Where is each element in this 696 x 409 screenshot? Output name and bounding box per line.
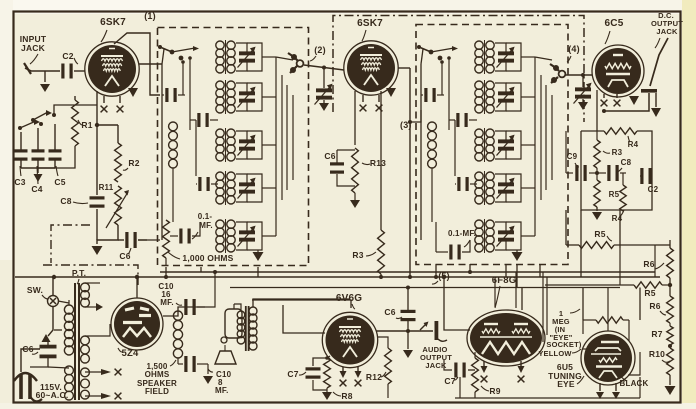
resistor R1: [72, 96, 93, 146]
tube V2 6SK7: [344, 41, 398, 95]
tube V7 6U5 tuning eye: [581, 331, 635, 385]
wire row 4 to right rail (box 1): [247, 174, 276, 202]
label D.C. OUTPUT JACK: [651, 11, 683, 48]
ground arrow left column: [92, 246, 103, 255]
wire box right bundle (box 2): [535, 57, 552, 236]
wire V1 plate to IF box: [139, 63, 162, 65]
wire row 2 to right rail (box 2): [506, 83, 535, 111]
band switch node (4): [550, 64, 565, 83]
trimmer capacitor row 2 (box 2): [495, 83, 515, 111]
resistor R3 right: [594, 131, 600, 168]
speaker field housing: [221, 304, 242, 343]
trimmer capacitor row 3 (box 2): [495, 131, 515, 159]
svg-text:C8: C8: [60, 196, 71, 206]
svg-text:C6: C6: [324, 151, 335, 161]
IF coil row 2 (box 2): [475, 80, 494, 114]
PT primary winding: [54, 300, 74, 355]
svg-text:(2): (2): [314, 45, 326, 55]
ground arrow at V1: [128, 88, 138, 97]
resistor R5 lower horizontal: [545, 282, 670, 288]
pins 6F8G with X marks: [481, 361, 525, 382]
label (2): [310, 45, 326, 61]
shield dash-dot around power section: [43, 225, 138, 285]
svg-text:C7: C7: [444, 376, 455, 386]
svg-text:C3: C3: [14, 177, 25, 187]
switch rotor in box (box 2): [417, 45, 458, 60]
IF coil row 2 (box 1): [216, 80, 235, 114]
svg-text:6V6G: 6V6G: [336, 293, 362, 304]
wire row 3 to right rail (box 2): [506, 131, 535, 159]
svg-text:FIELD: FIELD: [145, 387, 169, 396]
wire V3 cathode down: [596, 90, 598, 131]
resistor R6 lower: [667, 296, 674, 323]
svg-text:(1): (1): [144, 11, 156, 21]
shield box around V2 and IF box 2: [333, 16, 584, 123]
svg-text:C5: C5: [54, 177, 65, 187]
svg-text:C2: C2: [648, 185, 659, 194]
svg-text:60~A.C.: 60~A.C.: [36, 390, 69, 400]
svg-text:R3: R3: [612, 148, 623, 157]
wire detector network frame: [581, 131, 652, 210]
svg-text:R10: R10: [649, 349, 665, 359]
resistor R13: [350, 148, 360, 208]
speaker cone: [215, 345, 236, 364]
svg-text:JACK: JACK: [21, 43, 46, 53]
label 0.1-MF box1: [192, 212, 213, 239]
capacitor C7 at 6F8G: [444, 360, 475, 378]
wire output transformer top: [234, 299, 350, 311]
label (4): [567, 44, 580, 62]
wire node (3) vertical: [408, 68, 412, 277]
label 1 MEG eye socket: [546, 309, 581, 349]
capacitor in box mid (box 2): [449, 113, 477, 127]
svg-text:C9: C9: [567, 152, 578, 161]
svg-text:C6: C6: [384, 307, 395, 317]
resistor R4 top: [604, 128, 637, 134]
tube V5 6V6G: [322, 312, 377, 367]
resistor R5 right: [594, 168, 600, 210]
resistor R10: [667, 344, 674, 375]
svg-text:MF.: MF.: [199, 221, 213, 230]
a.c. plug: [14, 349, 42, 401]
wire V2 cathode down: [354, 91, 356, 145]
wire R1 bottom: [38, 146, 75, 168]
IF coil row 5 (box 1): [216, 219, 235, 253]
resistor R8: [322, 358, 332, 400]
svg-text:R11: R11: [99, 183, 114, 192]
label R13: [362, 158, 386, 168]
svg-text:0.1-MF.: 0.1-MF.: [448, 229, 476, 238]
resistor R5 horizontal: [566, 210, 656, 248]
wire (4) to V3: [565, 73, 592, 77]
pins V1 with X marks: [101, 96, 124, 112]
label 0.1-MF box2: [448, 229, 476, 247]
wire row 4 to right rail (box 2): [506, 174, 535, 202]
capacitor in box mid2 (box 1): [196, 177, 218, 191]
svg-text:R5: R5: [609, 190, 620, 199]
wire row 1 to right rail (box 1): [247, 43, 276, 71]
svg-text:EYE: EYE: [557, 379, 575, 389]
ground arrow in box (box 1): [253, 250, 264, 261]
wire eye leads: [583, 349, 640, 375]
label 6F8G: [492, 275, 517, 308]
wire 5Z4 output: [163, 307, 205, 316]
label C2 right: [648, 185, 659, 194]
coil in box left (box 2): [428, 122, 437, 222]
label C3: [14, 166, 25, 187]
label C7 at 6V6G: [287, 369, 306, 379]
IF coil row 1 (box 2): [475, 40, 494, 74]
pins 6V6G with X marks: [340, 367, 362, 386]
capacitor C6 audio: [401, 288, 416, 332]
wire wavetrap common: [21, 168, 55, 173]
label 6C5: [605, 18, 624, 44]
wire 6V6G grid: [283, 305, 325, 333]
wire chain junction: [668, 278, 672, 296]
capacitor C6 at V2: [330, 150, 355, 186]
capacitor in box left (box 2): [421, 88, 444, 102]
label C6 audio: [384, 307, 402, 319]
wire box inner verticals (box 2): [440, 56, 455, 176]
IF coil row 3 (box 1): [216, 128, 235, 162]
wire (3) into box 2: [410, 110, 421, 122]
svg-text:R7: R7: [651, 329, 662, 339]
tube V1 6SK7: [85, 42, 139, 96]
svg-text:(3): (3): [400, 120, 412, 130]
label 115V 60-A.C.: [36, 382, 69, 400]
label R5 lower: [644, 288, 655, 298]
capacitor C6 lower-left: [118, 232, 147, 261]
svg-text:R3: R3: [352, 250, 363, 260]
label C5: [54, 166, 65, 187]
IF coil row 4 (box 1): [216, 171, 235, 205]
capacitor in box mid2 (box 2): [455, 177, 477, 191]
wire V2 plate to (3): [398, 67, 410, 69]
input jack J1: [24, 63, 60, 74]
ground arrow in box (box 2): [512, 250, 523, 261]
wire bottom return: [455, 377, 640, 398]
svg-text:P.T.: P.T.: [72, 268, 86, 278]
trimmer capacitor row 3 (box 1): [236, 131, 256, 159]
wire box left rail (box 2): [421, 49, 423, 240]
ground below input jack: [40, 71, 50, 92]
capacitor C9: [567, 152, 587, 181]
wire box left rail (box 1): [162, 49, 164, 240]
ground arrow below C4: [34, 174, 43, 182]
svg-text:1,000 OHMS: 1,000 OHMS: [182, 253, 233, 263]
capacitor C3: [15, 132, 28, 168]
wire V2 screen drop: [380, 91, 382, 210]
label R3 mid: [352, 250, 376, 260]
label R7: [651, 329, 662, 339]
wire (2) to V2: [304, 65, 344, 70]
wire 6V6G plate: [252, 300, 351, 308]
resistor 1 meg: [583, 317, 629, 323]
label C8 right: [616, 158, 632, 172]
label 6V6G: [336, 293, 362, 309]
resistor R12: [377, 337, 391, 398]
svg-text:R6: R6: [649, 301, 660, 311]
svg-text:OHMS: OHMS: [145, 370, 170, 379]
label YELLOW: [538, 349, 581, 358]
svg-text:R5: R5: [644, 288, 655, 298]
capacitor C2: [61, 51, 78, 79]
pins V3 with X marks: [601, 94, 621, 106]
wire row 1 to right rail (box 2): [506, 43, 535, 71]
trimmer capacitor row 5 (box 1): [236, 222, 256, 250]
dashed box second band switch assembly: [416, 25, 568, 265]
capacitor C10 8MF: [178, 356, 208, 372]
label C10 16 MF: [158, 282, 182, 307]
wire row 2 to right rail (box 1): [247, 83, 276, 111]
trimmer capacitor row 4 (box 1): [236, 174, 256, 202]
label (3): [400, 120, 412, 130]
trimmer capacitor at node (2): [315, 68, 333, 105]
capacitor C2 right: [640, 168, 652, 184]
PT secondary HV winding: [81, 283, 103, 311]
label (5): [432, 271, 450, 284]
wire PT primary leads: [48, 301, 69, 368]
label R3 right: [603, 148, 623, 157]
trimmer capacitor row 1 (box 2): [495, 43, 515, 71]
svg-text:6C5: 6C5: [605, 18, 624, 29]
label 6U5 TUNING EYE: [548, 362, 584, 389]
IF coil row 3 (box 2): [475, 128, 494, 162]
label C10 8 MF: [208, 369, 232, 395]
label 1500 ohms speaker field: [137, 360, 177, 396]
wire row 5 to right rail (box 1): [247, 222, 276, 250]
wire bus line 2: [160, 271, 655, 273]
capacitor C7 at 6V6G: [306, 367, 328, 390]
trimmer capacitor row 5 (box 2): [495, 222, 515, 250]
wire box inner verticals (box 1): [181, 56, 196, 176]
label R8: [333, 391, 353, 401]
wire eye socket verticals: [583, 288, 629, 342]
wire top bus to 6F8G: [495, 264, 522, 310]
capacitor 0.1-MF box1: [170, 222, 200, 244]
label 1,000 OHMS: [168, 252, 234, 263]
resistor R3 mid: [378, 210, 385, 277]
capacitor in box left (box 1): [162, 88, 185, 102]
capacitor C8 left: [60, 125, 104, 240]
trimmer capacitor row 1 (box 1): [236, 43, 256, 71]
ground at audio jack: [403, 331, 413, 358]
svg-text:R1: R1: [81, 120, 92, 130]
wire V1 grid cap: [114, 33, 160, 95]
label AUDIO OUTPUT JACK: [420, 345, 452, 370]
tube V3 6C5: [592, 45, 644, 97]
label C7 at 6F8G: [444, 376, 458, 386]
svg-text:C7: C7: [287, 369, 298, 379]
trimmer capacitor at node (4): [574, 75, 592, 104]
label BLACK: [620, 375, 649, 388]
capacitor C5: [49, 124, 62, 168]
coil in box left (box 1): [169, 122, 178, 222]
svg-text:C8: C8: [621, 158, 632, 167]
svg-text:MF.: MF.: [160, 298, 174, 307]
wire 5Z4 top to bus: [135, 275, 139, 298]
capacitor C8 right: [597, 165, 626, 181]
X marks PT leads: [101, 369, 121, 400]
label R11: [99, 183, 114, 192]
svg-text:YELLOW: YELLOW: [538, 349, 572, 358]
label C4: [31, 166, 42, 194]
IF coil row 1 (box 1): [216, 40, 235, 74]
node input jack label: [20, 34, 47, 64]
wire right area verticals: [608, 245, 655, 331]
ground below (4) capacitor: [578, 102, 588, 110]
svg-text:MF.: MF.: [215, 386, 229, 395]
ground at chain bottom: [665, 375, 676, 395]
capacitor 0.1-MF box2: [436, 222, 470, 260]
band switch node (2): [288, 53, 303, 73]
resistor R4 small: [620, 173, 626, 211]
resistor R7: [667, 323, 673, 345]
wire 6F8G grid left: [444, 277, 470, 330]
resistor R2 volume pot: [115, 143, 140, 182]
svg-text:6SK7: 6SK7: [357, 18, 383, 29]
PT filament winding mid: [81, 324, 110, 363]
svg-text:R5: R5: [594, 229, 605, 239]
svg-text:R12: R12: [366, 372, 382, 382]
svg-text:0.1-: 0.1-: [198, 212, 213, 221]
capacitor C6 line filter: [30, 334, 57, 367]
svg-text:JACK: JACK: [656, 27, 678, 36]
wire row 5 to right rail (box 2): [506, 222, 535, 250]
label R5 right: [609, 190, 620, 199]
label 5Z4: [118, 348, 139, 359]
label R4 top: [628, 136, 639, 149]
resistor 1000 ohms: [163, 220, 170, 266]
svg-text:R2: R2: [128, 158, 139, 168]
label R9: [481, 386, 501, 396]
wire and ground at C10 8MF: [203, 364, 213, 384]
svg-text:SW.: SW.: [27, 285, 43, 295]
PT filament winding low: [81, 368, 108, 399]
wire C2 to V1: [74, 70, 85, 72]
svg-text:R9: R9: [489, 386, 500, 396]
capacitor C10 16MF: [184, 272, 215, 315]
pins V2 with X marks: [360, 95, 383, 111]
svg-text:6SK7: 6SK7: [100, 17, 126, 28]
trimmer capacitor row 2 (box 1): [236, 83, 256, 111]
label (1): [144, 11, 156, 21]
resistor R9: [472, 352, 479, 392]
switch contacts wave-trap: [18, 105, 97, 130]
svg-text:C2: C2: [62, 51, 73, 61]
ground arrow below detector network: [592, 212, 602, 220]
speaker field choke: [173, 311, 182, 364]
wire 6V6G cathode: [313, 356, 330, 366]
IF coil row 4 (box 2): [475, 171, 494, 205]
resistor R6 upper: [656, 240, 673, 278]
label R6 lower: [649, 301, 666, 315]
wire bus line 1: [15, 276, 660, 278]
svg-text:R8: R8: [341, 391, 352, 401]
svg-text:R13: R13: [370, 158, 386, 168]
wire R11 bottom to ground: [97, 225, 118, 244]
ground arrow at V3: [629, 96, 639, 105]
switch SW: [48, 277, 59, 336]
IF coil row 5 (box 2): [475, 219, 494, 253]
trimmer capacitor row 4 (box 2): [495, 174, 515, 202]
switch rotor in box (box 1): [158, 45, 199, 60]
power transformer core: [75, 283, 79, 400]
wire pot top: [95, 123, 118, 143]
label C6 at V2: [324, 151, 335, 161]
label R10: [649, 349, 670, 362]
label R12: [366, 372, 386, 382]
ground arrow at V2: [386, 88, 396, 97]
tube V6 6F8G: [467, 310, 545, 366]
label 6SK7 (V2): [357, 18, 383, 41]
label SW.: [27, 285, 48, 299]
capacitor C4: [32, 128, 45, 168]
pins 6U5 arrows: [596, 383, 620, 399]
resistor R11: [106, 186, 129, 228]
wire C6 into box: [138, 239, 160, 241]
ground below (2) capacitor: [319, 103, 329, 111]
wire C9 leads: [566, 131, 599, 175]
wire row 3 to right rail (box 1): [247, 131, 276, 159]
wire network to bus: [581, 207, 620, 277]
label R4 small: [612, 210, 624, 223]
output transformer: [237, 306, 257, 351]
svg-text:BLACK: BLACK: [620, 379, 649, 388]
wire bus to tuning eye: [543, 272, 547, 342]
wire V1 cathode down: [96, 91, 98, 125]
label P.T.: [72, 268, 86, 284]
label C6 line: [22, 344, 38, 354]
svg-text:C4: C4: [31, 184, 42, 194]
wire bus line 3: [230, 287, 620, 289]
wire bus verticals: [52, 264, 540, 290]
tube V4 5Z4 rectifier: [111, 298, 163, 350]
svg-text:R6: R6: [643, 259, 654, 269]
label R6 upper: [643, 259, 664, 269]
d.c. output jack symbol: [602, 38, 668, 117]
label 6SK7 (V1): [100, 17, 126, 42]
label R5 horizontal: [594, 229, 612, 241]
svg-text:5Z4: 5Z4: [122, 348, 139, 359]
dashed box (1) first band switch assembly: [158, 28, 309, 266]
svg-text:SOCKET): SOCKET): [546, 340, 581, 349]
capacitor in box mid (box 1): [190, 113, 218, 127]
PT primary lower winding: [65, 366, 74, 400]
wire box right bundle (box 1): [276, 57, 293, 236]
audio output jack symbol: [376, 321, 447, 341]
svg-text:(4): (4): [568, 44, 580, 54]
